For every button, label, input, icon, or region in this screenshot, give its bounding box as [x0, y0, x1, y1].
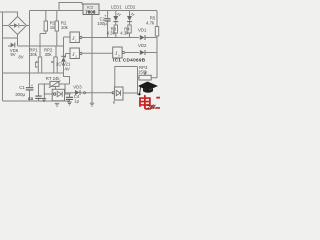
- svg-text:4.7k: 4.7k: [146, 21, 155, 26]
- svg-text:VD2: VD2: [138, 43, 147, 48]
- node circle on wire: [84, 92, 86, 94]
- wire feedback loop boxB top to RP3 column: [115, 67, 138, 88]
- wire J2 to J3: [82, 52, 113, 54]
- potentiometer RP1: [29, 34, 41, 74]
- ground under C4: [67, 102, 71, 105]
- relay J3: [113, 47, 125, 58]
- svg-text:2: 2: [75, 55, 77, 59]
- svg-text:之家: 之家: [147, 103, 157, 110]
- wire J3 to VD2: [124, 52, 139, 54]
- relay J1: [64, 32, 82, 46]
- wire AC input top-left: [0, 12, 18, 18]
- ground at x44: [42, 84, 46, 102]
- diode VD2: [138, 43, 157, 55]
- wire VD3 to gate B: [81, 92, 113, 94]
- svg-text:LED2: LED2: [125, 4, 136, 9]
- svg-text:7808: 7808: [85, 10, 96, 15]
- inverter gate box A: [44, 87, 70, 101]
- LED1: [111, 4, 122, 25]
- wire right-edge rail x157: [156, 11, 158, 79]
- svg-text:1: 1: [75, 39, 77, 43]
- capacitor C2: [97, 11, 110, 38]
- svg-text:8V: 8V: [18, 55, 23, 60]
- svg-text:RT 24k: RT 24k: [46, 76, 61, 81]
- svg-text:4.3k: 4.3k: [120, 31, 129, 36]
- diode VD6: [8, 43, 24, 60]
- wire IC2 ground pin down x92: [91, 15, 93, 104]
- svg-text:VD3: VD3: [73, 85, 82, 90]
- svg-text:10k: 10k: [61, 25, 69, 30]
- thermistor RT 24k: [39, 76, 70, 93]
- wire DC+ bus vertical x29.5: [29, 11, 31, 102]
- capacitor C3: [28, 84, 42, 101]
- svg-text:1µ: 1µ: [74, 99, 79, 104]
- svg-text:30k: 30k: [30, 52, 38, 57]
- resistor R5: [146, 16, 159, 36]
- ground under gate A: [55, 103, 59, 106]
- svg-text:LED1: LED1: [111, 4, 122, 9]
- svg-text:150k: 150k: [138, 70, 148, 75]
- svg-text:9V: 9V: [10, 52, 15, 57]
- potentiometer RP2: [44, 46, 57, 73]
- capacitor C1: [15, 83, 34, 97]
- svg-text:VD1: VD1: [138, 28, 147, 33]
- diode VD3: [65, 85, 82, 95]
- wire regulator output rail: [99, 10, 157, 12]
- svg-text:C3: C3: [28, 97, 33, 101]
- diode VD1: [138, 28, 157, 40]
- wire y46 main horizontal: [18, 45, 64, 47]
- wire ground rail bottom y101: [3, 100, 71, 102]
- wire left vertical rail: [2, 13, 4, 102]
- svg-text:C1: C1: [19, 85, 25, 90]
- svg-text:IC1 CD4069B: IC1 CD4069B: [113, 58, 146, 63]
- resistor R1: [40, 11, 57, 34]
- svg-text:30k: 30k: [45, 52, 53, 57]
- wire top rail to regulator input: [30, 10, 84, 12]
- svg-text:4V: 4V: [65, 66, 70, 71]
- relay J2: [64, 48, 82, 59]
- potentiometer RP3: [138, 65, 158, 95]
- resistor R2: [55, 11, 69, 47]
- wire y73 bus: [3, 72, 64, 74]
- resistor R3: [107, 25, 118, 38]
- watermark logo graduation cap: [138, 82, 158, 96]
- svg-text:100µ: 100µ: [97, 21, 107, 26]
- wire gate B output to VT: [123, 92, 138, 94]
- resistor R4: [120, 25, 131, 38]
- wire jog over top rail: [59, 3, 82, 11]
- regulator IC2 7808: [83, 4, 99, 15]
- ground under x92: [90, 103, 94, 106]
- wire y38 to left rail: [3, 37, 18, 39]
- wire bottom stem of bridge: [17, 35, 19, 47]
- wire J1 to VD1: [82, 37, 139, 39]
- inverter gate box B: [112, 87, 123, 105]
- LED2: [125, 4, 136, 25]
- wire bridge right vertex to DC bus: [26, 25, 30, 27]
- zener diode 2CW21 4V: [56, 46, 71, 84]
- svg-text:4.3k: 4.3k: [107, 31, 116, 36]
- svg-text:300µ: 300µ: [15, 92, 25, 97]
- bridge rectifier VC: [3, 17, 27, 35]
- capacitor C4: [66, 93, 80, 104]
